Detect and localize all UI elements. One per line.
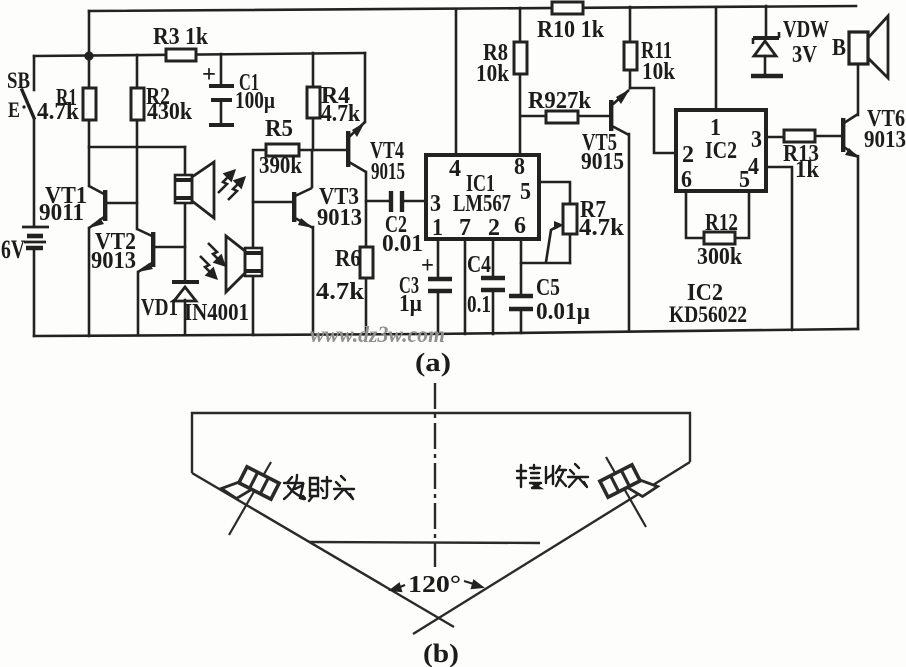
battery 6V (22, 227, 49, 248)
wire R4 bottom to node (312, 118, 315, 150)
wire transducer1 column top (184, 147, 187, 175)
wire R4 top stem (312, 53, 315, 87)
svg-text:6: 6 (514, 213, 526, 239)
wire R6 to ground (365, 278, 368, 334)
svg-text:4.7k: 4.7k (321, 101, 361, 127)
wire C1 lower stem (220, 101, 223, 124)
figure b left transducer head (220, 461, 279, 513)
wire VT4 collector column (365, 172, 368, 247)
svg-text:0.01µ: 0.01µ (536, 299, 590, 325)
svg-text:390k: 390k (259, 153, 303, 179)
resistor R5 (266, 144, 299, 156)
wire R2 bottom column to VT2 collector (136, 120, 139, 229)
wire VT1 emitter column to ground (88, 228, 91, 336)
figure b center line (434, 383, 436, 567)
svg-text:1µ: 1µ (399, 291, 422, 317)
svg-text:10k: 10k (642, 59, 676, 85)
svg-text:8: 8 (514, 154, 525, 180)
diode VD1 (172, 282, 199, 301)
svg-text:0.1: 0.1 (467, 292, 491, 318)
svg-text:3V: 3V (792, 42, 818, 68)
svg-text:C4: C4 (467, 252, 491, 278)
svg-text:R6: R6 (335, 246, 361, 272)
svg-text:4.7k: 4.7k (579, 215, 625, 241)
wire IC2 pin3 to R13 (766, 136, 784, 139)
wire R1 column top (88, 56, 91, 88)
svg-text:R5: R5 (265, 116, 293, 142)
svg-text:R927k: R927k (528, 88, 592, 114)
wire C1 stem (220, 54, 223, 85)
resistor R12 (704, 232, 735, 244)
resistor R2 (131, 88, 144, 120)
wire IC1 pin6 stem (520, 239, 523, 294)
op-amp IC1 LM567 box (426, 155, 539, 239)
figure b chord (309, 542, 540, 543)
wire VT3 emitter column (312, 227, 315, 334)
speaker B (849, 16, 888, 78)
svg-text:9015: 9015 (581, 149, 624, 175)
wire IC1 pin5 to R7 (539, 182, 570, 204)
wire R9 left lead (521, 115, 546, 118)
svg-text:R12: R12 (705, 210, 738, 236)
svg-text:5: 5 (520, 179, 531, 205)
wire R11 top stem (629, 7, 632, 42)
wire VT3 collector column (311, 150, 314, 187)
svg-text:R3 1k: R3 1k (153, 24, 209, 50)
wire IC2 pin6 stem (686, 191, 704, 238)
transistor VT4 (346, 122, 366, 172)
wire R9 right lead to VT5 base (578, 115, 609, 118)
wire transducer1 to VD1 (184, 203, 187, 281)
svg-text:10k: 10k (476, 61, 510, 87)
svg-text:9013: 9013 (864, 127, 906, 153)
wire VT5 emitter node to IC2 pin2 (630, 88, 676, 153)
resistor R7 potentiometer (554, 204, 577, 234)
figure b right transducer axis (606, 457, 646, 527)
svg-text:6V: 6V (1, 235, 25, 264)
svg-text:2: 2 (488, 215, 500, 241)
wire R11 bottom to VT5 emitter node (629, 70, 632, 88)
wire VT3 base link (253, 201, 292, 204)
svg-text:9013: 9013 (317, 205, 362, 231)
svg-text:E: E (8, 97, 20, 122)
svg-text:2: 2 (682, 142, 694, 168)
svg-text:430k: 430k (147, 99, 193, 125)
wire node to VT4 base (313, 149, 346, 152)
svg-text:LM567: LM567 (453, 191, 511, 217)
svg-text:B: B (832, 35, 846, 61)
receive arrows (200, 243, 224, 278)
svg-text:300k: 300k (697, 244, 743, 270)
svg-text:120°: 120° (408, 572, 461, 598)
capacitor C1 (209, 86, 234, 125)
resistor R6 (360, 247, 373, 278)
figure b left transducer axis (229, 462, 271, 535)
wire R5 right lead (299, 149, 313, 152)
capacitor C2 (391, 191, 402, 212)
wire VT6 emitter to ground (857, 156, 860, 329)
resistor R11 (624, 42, 637, 70)
svg-text:IN4001: IN4001 (184, 300, 249, 326)
transistor VT3 (292, 188, 313, 228)
wire R8 bottom to R9 node and IC1 pin8 (519, 74, 522, 155)
wire VT2 emitter column to ground (137, 272, 140, 335)
transistor VT1 (89, 186, 107, 228)
resistor R13 (784, 130, 815, 142)
wire VD1 to ground (184, 300, 187, 335)
svg-text:3: 3 (430, 191, 441, 217)
wire VT2 base link (155, 246, 185, 249)
wire bottom ground rail (34, 329, 858, 336)
wire transducer2 to ground (252, 276, 255, 335)
wire R2 stem top (136, 55, 139, 88)
wire VDW stem (765, 6, 768, 36)
svg-text:VD1: VD1 (141, 295, 178, 321)
wire SB to battery (33, 118, 36, 226)
resistor R9 (546, 111, 578, 123)
switch SB button actuator (8, 97, 31, 122)
svg-text:R10 1k: R10 1k (537, 17, 605, 43)
figure b right transducer head (600, 459, 659, 511)
wire IC1 pin7 column (464, 239, 467, 334)
svg-text:1: 1 (432, 215, 443, 241)
figure b right slope (413, 462, 690, 634)
svg-text:4: 4 (449, 156, 461, 182)
transducer ultrasonic transmitter (175, 162, 214, 218)
wire C5 to ground (520, 311, 523, 333)
wire C2 left lead (366, 200, 389, 203)
wire R7 wiper (546, 226, 558, 262)
wire R1 bottom to VT1 collector (88, 120, 91, 186)
svg-text:KD56022: KD56022 (669, 302, 747, 327)
capacitor C3 (428, 279, 452, 291)
svg-text:4.7k: 4.7k (37, 99, 80, 125)
wire IC2 pin1 riser (715, 7, 718, 110)
svg-text:(b): (b) (423, 639, 459, 667)
transistor VT6 (841, 114, 859, 158)
figure b outline (192, 383, 690, 634)
svg-text:3: 3 (751, 127, 762, 153)
wire IC2 pin5 stem (735, 191, 749, 238)
wire IC1 pin2 stem to C4 (492, 239, 495, 276)
wire top supply rail (89, 6, 856, 11)
wire SB top contact (33, 56, 36, 90)
wire VT5 collector column to ground (628, 134, 631, 331)
label transmitter head (Chinese) (284, 475, 354, 501)
wire IC2 pin4 to ground (766, 167, 792, 330)
svg-text:4.7k: 4.7k (316, 279, 365, 305)
wire R13 to VT6 base (815, 135, 841, 138)
svg-text:1k: 1k (795, 157, 820, 183)
svg-text:C5: C5 (536, 275, 560, 301)
transistor VT2 (137, 229, 155, 272)
svg-text:IC2: IC2 (705, 138, 737, 164)
transistor IC2 KD56022 box (676, 110, 766, 191)
dimension arrow left (391, 584, 405, 591)
capacitor C4 (481, 278, 505, 290)
svg-text:9013: 9013 (91, 248, 136, 274)
wire R7 bottom to pin6 column (521, 262, 570, 265)
wire IC1 pin4 riser (455, 9, 458, 155)
svg-text:7: 7 (459, 215, 471, 241)
svg-text:6: 6 (681, 167, 692, 193)
capacitor C5 (509, 296, 533, 309)
transistor VT5 (609, 89, 630, 135)
resistor R8 (514, 42, 527, 74)
resistor R10 (552, 2, 583, 14)
svg-text:5: 5 (739, 167, 750, 193)
wire VT1 base link (107, 202, 137, 205)
wire R8 column (pin8) (519, 8, 522, 42)
svg-text:+: + (421, 253, 434, 279)
wire battery to ground rail (33, 250, 36, 336)
zener diode VDW (751, 32, 783, 76)
dimension arrow right (464, 581, 482, 588)
wire C4 to ground (492, 292, 495, 334)
svg-text:9011: 9011 (39, 200, 84, 226)
wire second rail (R3 rail) (34, 53, 365, 56)
svg-text:(a): (a) (415, 348, 451, 377)
resistor R3 (166, 49, 196, 61)
svg-text:9015: 9015 (371, 159, 405, 185)
wire horizontal link R1col-R2col-transducer1 (89, 146, 185, 149)
svg-text:www.dz3w.com: www.dz3w.com (310, 322, 445, 347)
wire C2 right lead to IC1 pin3 (404, 200, 426, 203)
figure b left slope (192, 473, 454, 627)
switch SB blade (22, 90, 34, 118)
transducer ultrasonic receiver (226, 236, 262, 292)
transmit arrows (218, 171, 244, 200)
node junction dot (84, 51, 93, 60)
label receiver head (Chinese) (517, 464, 588, 488)
wire C3 to ground (437, 292, 440, 334)
wire left riser from top rail to junction (88, 11, 91, 56)
svg-text:0.01: 0.01 (382, 231, 423, 257)
wire R5 left lead and transducer2 column (253, 150, 266, 248)
resistor R1 (83, 88, 96, 120)
svg-text:SB: SB (7, 68, 30, 93)
wire VDW lower stem (764, 56, 767, 74)
wire IC1 pin1 stem to C3 (437, 239, 440, 277)
wire VT4 emitter to rail2 (364, 53, 367, 122)
svg-text:+: + (202, 62, 216, 88)
svg-text:VDW: VDW (783, 17, 829, 43)
wire R7 bottom stem (569, 234, 572, 263)
resistor R4 (307, 87, 320, 118)
svg-text:100µ: 100µ (235, 88, 275, 114)
wire speaker to VT6 collector (857, 64, 860, 115)
